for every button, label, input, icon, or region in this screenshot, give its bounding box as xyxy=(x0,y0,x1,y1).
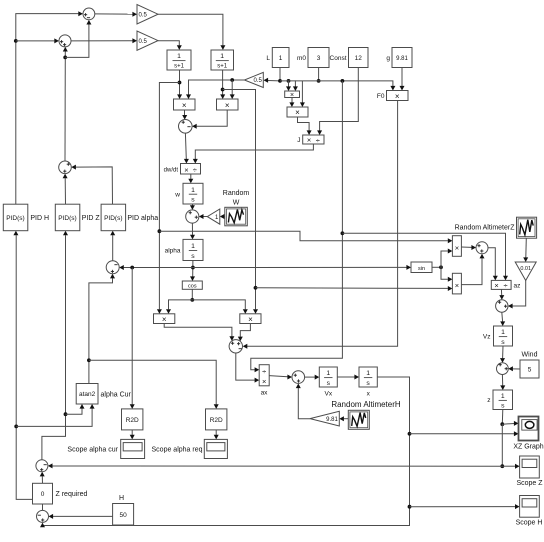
svg-text:1: 1 xyxy=(326,370,330,377)
svg-text:×: × xyxy=(295,108,300,117)
svg-text:Const: Const xyxy=(330,55,347,62)
svg-text:0.5: 0.5 xyxy=(139,12,148,18)
svg-text:0.5: 0.5 xyxy=(253,78,262,84)
svg-text:H: H xyxy=(119,495,124,502)
svg-text:az: az xyxy=(514,283,521,290)
svg-text:alpha: alpha xyxy=(165,248,181,255)
svg-text:s: s xyxy=(501,339,505,346)
svg-text:Vx: Vx xyxy=(325,391,333,398)
svg-text:PID Z: PID Z xyxy=(82,215,101,222)
svg-text:w: w xyxy=(174,192,180,199)
svg-text:×: × xyxy=(184,165,188,174)
svg-text:×: × xyxy=(307,136,311,145)
svg-text:F0: F0 xyxy=(377,93,385,100)
svg-text:÷: ÷ xyxy=(504,281,508,290)
svg-text:ax: ax xyxy=(261,390,269,397)
svg-text:×: × xyxy=(182,101,187,110)
svg-text:×: × xyxy=(162,315,167,324)
svg-text:s: s xyxy=(501,403,505,410)
svg-text:cos: cos xyxy=(188,284,197,290)
svg-text:×: × xyxy=(494,281,498,290)
svg-text:PID alpha: PID alpha xyxy=(127,215,158,222)
svg-text:Scope alpha req: Scope alpha req xyxy=(152,447,203,454)
svg-text:alpha Cur: alpha Cur xyxy=(101,392,132,399)
svg-text:÷: ÷ xyxy=(193,166,197,175)
svg-text:1: 1 xyxy=(501,393,505,400)
svg-text:s: s xyxy=(191,253,195,260)
svg-text:s: s xyxy=(191,197,195,204)
svg-text:s: s xyxy=(366,380,370,387)
svg-text:Wind: Wind xyxy=(522,352,538,359)
svg-text:×: × xyxy=(248,315,253,324)
svg-text:PID(s): PID(s) xyxy=(6,215,24,222)
svg-text:R2D: R2D xyxy=(210,417,223,424)
svg-text:1: 1 xyxy=(177,53,181,60)
svg-text:Scope H: Scope H xyxy=(516,520,543,527)
svg-text:s: s xyxy=(327,380,331,387)
svg-text:1: 1 xyxy=(366,370,370,377)
svg-text:Vz: Vz xyxy=(483,334,491,341)
svg-text:L: L xyxy=(266,55,270,62)
svg-text:Scope alpha cur: Scope alpha cur xyxy=(67,447,118,454)
svg-text:W: W xyxy=(233,200,240,207)
svg-text:×: × xyxy=(455,281,459,290)
svg-text:0.5: 0.5 xyxy=(139,39,148,45)
svg-text:×: × xyxy=(455,243,459,252)
svg-text:÷: ÷ xyxy=(316,136,320,145)
svg-text:×: × xyxy=(290,92,294,99)
svg-text:×: × xyxy=(262,377,266,386)
svg-text:PID(s): PID(s) xyxy=(58,215,76,222)
svg-text:Random: Random xyxy=(223,190,250,197)
svg-text:1: 1 xyxy=(220,53,224,60)
svg-text:0.01: 0.01 xyxy=(520,266,531,272)
svg-text:Z required: Z required xyxy=(56,491,88,498)
svg-text:z: z xyxy=(487,397,490,404)
svg-text:PID(s): PID(s) xyxy=(104,215,122,222)
svg-text:3: 3 xyxy=(317,55,321,62)
svg-text:R2D: R2D xyxy=(126,417,139,424)
svg-text:×: × xyxy=(225,101,230,110)
svg-text:×: × xyxy=(395,92,400,101)
svg-text:atan2: atan2 xyxy=(79,391,96,398)
svg-text:sin: sin xyxy=(418,266,425,272)
svg-text:9.81: 9.81 xyxy=(326,417,338,423)
svg-text:1: 1 xyxy=(501,329,505,336)
svg-text:J: J xyxy=(297,137,300,144)
svg-text:s+1: s+1 xyxy=(217,64,228,70)
svg-text:s+1: s+1 xyxy=(174,64,185,70)
svg-text:Scope Z: Scope Z xyxy=(516,480,543,487)
svg-text:1: 1 xyxy=(279,55,283,62)
svg-text:Random AltimeterH: Random AltimeterH xyxy=(331,400,401,409)
svg-text:g: g xyxy=(386,55,390,62)
svg-text:÷: ÷ xyxy=(262,367,266,376)
svg-text:50: 50 xyxy=(119,512,127,519)
svg-text:5: 5 xyxy=(528,367,532,374)
svg-text:XZ Graph: XZ Graph xyxy=(513,444,543,451)
svg-text:12: 12 xyxy=(355,55,363,62)
svg-text:m0: m0 xyxy=(297,55,306,62)
svg-text:0: 0 xyxy=(41,491,45,498)
svg-text:1: 1 xyxy=(191,243,195,250)
svg-text:9.81: 9.81 xyxy=(396,56,408,62)
svg-text:Random AltimeterZ: Random AltimeterZ xyxy=(455,225,516,232)
svg-text:PID H: PID H xyxy=(30,215,49,222)
svg-text:1: 1 xyxy=(191,187,195,194)
svg-text:dw/dt: dw/dt xyxy=(164,168,179,174)
